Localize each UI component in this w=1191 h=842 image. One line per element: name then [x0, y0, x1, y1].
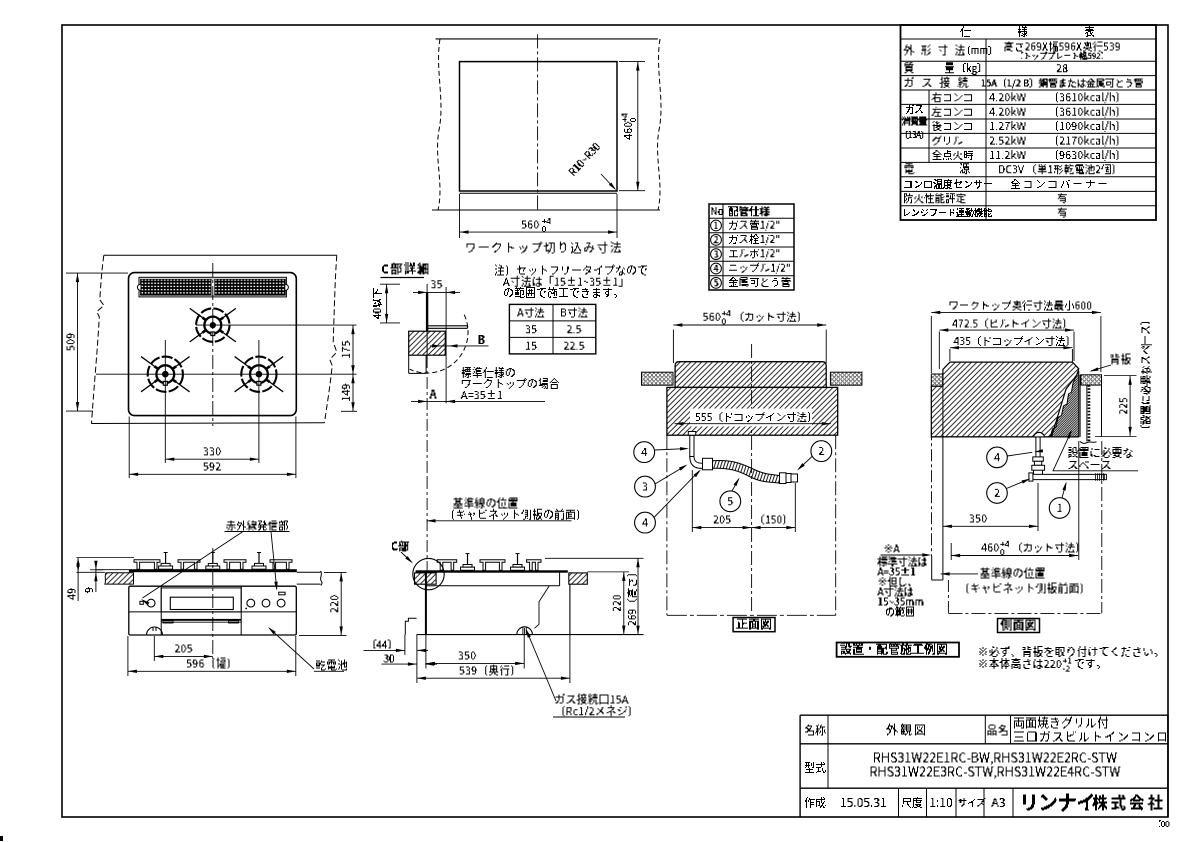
側面図 worktop strip left — [931, 374, 943, 386]
正面図 dim 555 — [690, 409, 812, 427]
dim 9 — [90, 569, 103, 571]
front elevation burner caps — [159, 566, 173, 569]
dim 49 — [77, 558, 79, 601]
circled 3 — [635, 476, 656, 497]
note 本体高さ — [980, 659, 987, 668]
sheet corner mark — [0, 836, 3, 841]
rotated note 設置に必要なスペース — [1141, 322, 1151, 428]
piping row 3 エルボ1/2″ — [711, 249, 722, 260]
front elevation worktop left — [76, 571, 105, 573]
logo リンナイ株式会社 — [1023, 795, 1035, 811]
正面図 unit lower block — [667, 387, 838, 435]
front elevation grate top ext line — [76, 557, 134, 559]
dim 330 — [165, 458, 259, 460]
dim 509 — [66, 272, 128, 274]
side center line to detail — [426, 477, 428, 572]
spec row 外形寸法 — [904, 45, 915, 56]
dim 350 side view — [1037, 483, 1039, 531]
dim 225 — [1104, 374, 1137, 376]
note standard worktop — [462, 367, 471, 378]
dim 350 side bottom — [523, 635, 525, 669]
note set-free type — [495, 265, 504, 276]
側面図 dim 600 — [950, 302, 958, 310]
側面図 install space wedge — [1050, 371, 1079, 437]
circled 4 lower — [635, 512, 656, 533]
rear burner horizontal axis — [196, 324, 357, 326]
dim 35 detail — [413, 291, 460, 293]
cutout drawing: right break edge — [658, 39, 661, 210]
C detail title — [382, 265, 388, 274]
spec row コンロ温度センサー — [904, 181, 912, 188]
spec row 全点火時 — [933, 150, 942, 160]
側面図 label — [998, 619, 1040, 633]
plan view top plate — [129, 273, 297, 416]
side view worktop right — [569, 573, 588, 584]
dim 269 side — [545, 557, 644, 559]
side view under-plate trim — [426, 585, 560, 587]
label ガス接続口15A — [556, 694, 565, 704]
spec row 防火性能評定 — [904, 193, 913, 203]
cutout drawing: left break edge — [438, 39, 441, 210]
front elevation body — [129, 586, 296, 635]
C部 label — [392, 542, 398, 551]
cutout center line — [537, 34, 539, 212]
正面図 label — [733, 618, 775, 632]
背板 label — [1111, 354, 1120, 365]
circled 5 — [720, 491, 741, 512]
側面図 back panel — [1079, 375, 1081, 437]
spec row 右コンロ — [932, 92, 942, 102]
dim 149 — [352, 374, 354, 411]
側面図 gas cock fittings — [1033, 457, 1044, 461]
side view top plate — [416, 570, 568, 572]
grill vent outer frame — [139, 277, 286, 297]
spec row レンジフード連動機能 — [904, 209, 910, 216]
dim 596 — [127, 636, 129, 676]
detail centre line A — [426, 284, 428, 293]
left note block — [878, 557, 888, 567]
pipe nipple — [703, 458, 713, 470]
front burners horizontal axis — [96, 373, 357, 375]
dim 560 cutout — [459, 194, 461, 238]
piping row 1 ガス管1/2″ — [711, 220, 722, 231]
spec row 後コンロ — [933, 121, 942, 131]
側面図 dim 435 — [954, 337, 959, 345]
grill door — [161, 588, 241, 612]
front elevation top plate — [96, 569, 129, 571]
側面図 bottom line — [931, 436, 1079, 438]
title 型式 — [805, 762, 814, 773]
正面図 center line — [751, 344, 753, 613]
side view interior duct — [535, 586, 550, 629]
側面図 unit cross-section — [931, 362, 1079, 437]
detail circle C — [413, 558, 444, 589]
正面図 cabinet — [666, 435, 668, 615]
side view burner caps — [461, 567, 475, 570]
spec rows ガス消費量 left label — [906, 104, 914, 114]
grill rail — [161, 619, 241, 621]
plan view worktop bottom edge — [92, 422, 325, 425]
dim 40以下 — [380, 283, 400, 285]
side view worktop left — [415, 573, 437, 584]
sheet number (00 bottom-right — [1159, 820, 1161, 827]
side view body — [425, 573, 427, 635]
title 作成 — [805, 797, 815, 808]
側面図 horizontal pipe — [1031, 473, 1105, 475]
circled 2 side — [987, 483, 1008, 504]
側面図 pipe riser — [1035, 437, 1037, 457]
plan view worktop right break edge — [325, 255, 337, 422]
正面図 worktop strip right — [830, 372, 862, 385]
front elevation grates — [134, 560, 160, 569]
spec table header 仕様表 — [960, 26, 971, 37]
設置・配管施工例図 label — [837, 643, 959, 657]
side view gas dome — [517, 627, 533, 635]
side ext lines bottom — [404, 635, 406, 655]
dim 205 front — [153, 636, 155, 661]
dim 539 — [569, 635, 571, 683]
pipe riser + elbow — [688, 432, 695, 436]
detail top plate edge — [427, 325, 467, 327]
cutout drawing: worktop outline — [436, 38, 658, 40]
dim B — [430, 345, 489, 347]
spec row ガス接続 — [905, 77, 914, 87]
ticks near rotated note — [1141, 344, 1152, 346]
burner front-right axis — [258, 340, 260, 463]
detail cabinet wall below — [408, 355, 410, 373]
plan view worktop top edge — [104, 254, 337, 256]
front elevation center line — [212, 548, 214, 659]
piping row 4 ニップル1/2″ — [711, 263, 722, 274]
gas inlet dome front — [147, 627, 163, 635]
grill vent center gap — [212, 279, 215, 295]
circled 1 side — [1049, 498, 1070, 519]
label 設置に必要なスペース — [1069, 447, 1079, 458]
plan center line vertical — [212, 263, 214, 426]
grill vent end bumps — [137, 284, 140, 290]
側面図 dim 472.5 — [952, 320, 957, 328]
正面図 worktop strip left — [642, 372, 674, 385]
control knobs — [147, 599, 155, 607]
piping table header — [712, 207, 717, 215]
dim 460 cutout — [619, 61, 645, 63]
基準線の位置 label (side) — [454, 498, 463, 509]
front elevation worktop right — [297, 571, 321, 573]
burner rear center — [220, 318, 223, 320]
detail boundary arc — [410, 315, 468, 373]
detail ext line B — [445, 287, 447, 403]
dim 592 — [128, 417, 130, 479]
piping row 2 ガス栓1/2″ — [711, 234, 722, 245]
dim 30 — [384, 655, 389, 663]
正面図 unit upper block — [675, 362, 826, 388]
piping table 配管仕様 grid — [709, 204, 794, 290]
plan view worktop left break edge — [92, 255, 105, 423]
spec row 左コンロ — [932, 107, 942, 117]
dim 220 side — [587, 571, 629, 573]
dim 175 — [352, 325, 354, 374]
正面図 dim 560 cut — [672, 330, 674, 364]
burner front-right — [266, 366, 269, 368]
title block grid — [800, 714, 1168, 716]
dim A — [411, 400, 545, 402]
note 背板取付 — [980, 647, 987, 656]
cutout rectangle — [460, 62, 618, 191]
spec row グリル — [933, 136, 942, 146]
AB table — [509, 304, 595, 354]
circled 4 upper — [634, 442, 655, 463]
title 名称 — [805, 725, 814, 736]
R10-R30 note — [568, 142, 600, 176]
dim 460 cut side view — [950, 543, 952, 560]
hose end fittings — [780, 473, 787, 484]
grill vent mesh (black with white dots) — [141, 279, 286, 295]
side view front protrusion — [405, 618, 416, 634]
dim (44) — [374, 640, 377, 649]
circled 4 side — [987, 447, 1008, 468]
label 赤外線発信部 — [227, 521, 236, 531]
側面図 worktop strip right — [1081, 375, 1102, 385]
側面図 cabinet walls — [931, 386, 933, 556]
dims 205 (150) — [691, 470, 693, 532]
flexible hose — [713, 461, 780, 483]
※A note — [885, 545, 893, 553]
piping row 5 金属可とう管 — [711, 277, 722, 288]
IR emitter window — [279, 592, 285, 595]
spec row 電源 — [905, 163, 915, 174]
label 乾電池 — [316, 661, 326, 671]
基準線の位置 (side view) — [941, 573, 978, 575]
detail worktop hatched — [409, 331, 446, 355]
burner front-left axis — [164, 340, 166, 463]
circled 2 right — [811, 441, 832, 462]
title 品名 — [988, 725, 997, 736]
burner front-left — [173, 366, 176, 368]
spec table 仕様表 grid — [901, 25, 1157, 220]
spec row 質量 — [905, 62, 914, 73]
dim 220 front — [324, 571, 347, 573]
caption ワークトップ切り込み寸法 — [467, 244, 475, 253]
side view grates — [437, 560, 457, 571]
